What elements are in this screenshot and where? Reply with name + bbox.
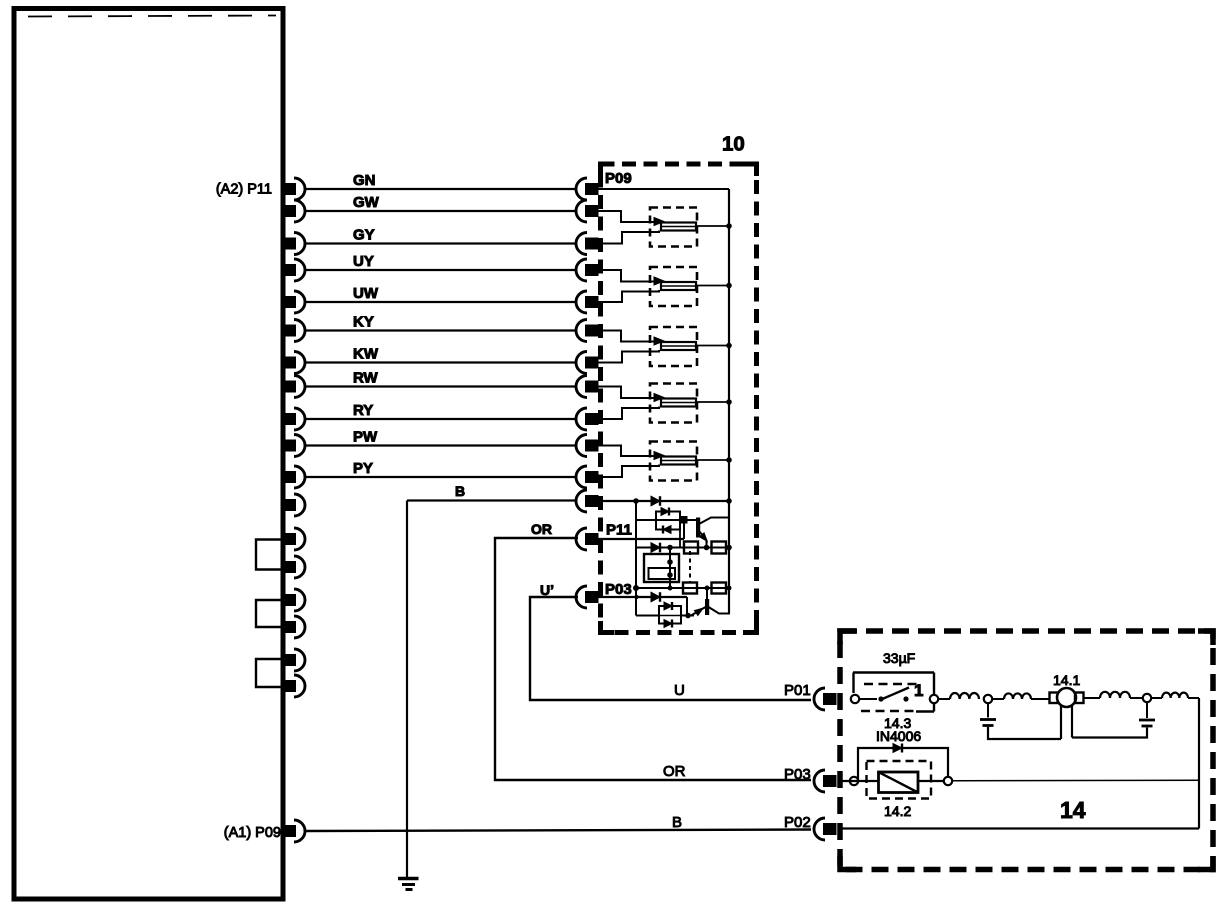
junction RC-RD node bbox=[705, 586, 710, 591]
injector 1 top lead bbox=[598, 211, 656, 222]
ECU spare pin y686 bbox=[284, 675, 305, 697]
S1 right lead down bbox=[679, 530, 681, 548]
svg-text:RY: RY bbox=[353, 402, 373, 419]
junction W547 left bbox=[667, 545, 673, 551]
box-10 pin GN bbox=[576, 178, 598, 200]
logic block R1 inner bbox=[649, 568, 676, 579]
junction P03-V1 crossing bbox=[634, 595, 638, 599]
svg-text:P01: P01 bbox=[784, 682, 811, 699]
injector 4 output wire bbox=[696, 401, 729, 403]
ECU spare pin y627 bbox=[284, 616, 305, 638]
resistor RB bbox=[712, 542, 727, 554]
ECU top border scan artifact bbox=[28, 16, 276, 17]
junction node V1 top bbox=[633, 498, 639, 504]
svg-text:B: B bbox=[455, 483, 465, 499]
junction injector 1 to bus bbox=[726, 223, 732, 229]
svg-text:Uʼ: Uʼ bbox=[540, 582, 554, 598]
label PY bbox=[353, 460, 373, 477]
motor 14.1 right terminal bbox=[1075, 693, 1084, 704]
ECU pin (A1) P09 bbox=[284, 820, 305, 842]
injector 4 valve arrow bbox=[654, 394, 664, 402]
wire B inside box 10 bbox=[598, 500, 729, 502]
ECU spare pin y660 bbox=[284, 649, 305, 671]
injector 2 valve arrow bbox=[654, 277, 664, 285]
wire KW bbox=[305, 361, 576, 363]
svg-text:1: 1 bbox=[914, 681, 923, 700]
inductor L3 bbox=[1100, 692, 1130, 698]
ECU spare pin y567 bbox=[284, 556, 305, 578]
box-10 pin GW bbox=[576, 200, 598, 222]
junction square P11 feed bbox=[681, 517, 688, 524]
label OR (lower) bbox=[663, 763, 686, 780]
wire PW bbox=[305, 444, 576, 446]
injector 2 output wire bbox=[696, 285, 729, 287]
wire W588 resistor row 2 bbox=[636, 587, 729, 589]
injector 5 coil body bbox=[661, 457, 696, 465]
svg-text:14.2: 14.2 bbox=[884, 803, 911, 819]
injector 5 top lead bbox=[598, 446, 656, 457]
junction W547 to bus bbox=[726, 545, 732, 551]
inductor L1 bbox=[950, 693, 979, 699]
label GW bbox=[353, 194, 380, 211]
label U* bbox=[540, 582, 554, 598]
wire UY bbox=[305, 269, 576, 271]
injector 5 valve arrow bbox=[654, 452, 664, 460]
vertical rail V2 bbox=[669, 548, 671, 589]
diode S1 bottom bbox=[663, 526, 671, 534]
injector 5 output wire bbox=[696, 459, 729, 461]
suppression box S2 bbox=[659, 606, 681, 624]
wire PY bbox=[305, 476, 576, 478]
switch 14.3 pin 1 label bbox=[914, 681, 923, 700]
wire P02 line bbox=[842, 827, 1199, 829]
label P11 bbox=[606, 522, 632, 539]
transistor T1 base bar bbox=[697, 518, 700, 537]
diode 14.2 body bbox=[879, 772, 919, 793]
wire 14.2 to right edge bbox=[952, 779, 1199, 782]
junction V2 a bbox=[667, 559, 673, 565]
component 10 dashed border bbox=[601, 164, 757, 633]
inductor L2 bbox=[1004, 693, 1031, 699]
svg-text:P03: P03 bbox=[605, 581, 632, 598]
diode D3 on P03 wire bbox=[651, 592, 660, 602]
diode D1 on B wire bbox=[651, 496, 660, 506]
injector 4 top lead bbox=[598, 387, 656, 399]
svg-text:KW: KW bbox=[353, 346, 379, 363]
wire P11 bbox=[598, 538, 684, 540]
diode 14.2 dashed box bbox=[867, 761, 932, 799]
junction injector 2 to bus bbox=[726, 283, 732, 289]
box 10 corner marks bbox=[601, 164, 757, 633]
label P09 bbox=[605, 170, 632, 187]
node after L3 bbox=[1143, 694, 1151, 702]
injector 2 coil body bbox=[661, 282, 696, 290]
logic block R1 outer bbox=[644, 554, 679, 582]
node after L1 bbox=[984, 695, 992, 703]
wire P03 inside box 10 bbox=[598, 596, 687, 598]
capacitor C2 bottom lead bbox=[1072, 728, 1147, 738]
svg-text:(A1) P09: (A1) P09 bbox=[224, 825, 281, 841]
box-10 pin GY bbox=[576, 233, 598, 255]
svg-text:(A2) P11: (A2) P11 bbox=[216, 182, 272, 198]
svg-text:UW: UW bbox=[353, 285, 379, 302]
svg-text:PW: PW bbox=[353, 429, 378, 446]
label 14 bbox=[1060, 797, 1086, 823]
inductor L4 bbox=[1162, 693, 1188, 698]
diode 14.2 bypass loop bbox=[858, 748, 948, 779]
svg-text:KY: KY bbox=[353, 314, 374, 331]
junction V2-W588 bbox=[668, 586, 673, 591]
ECU pin for wire GN bbox=[284, 178, 305, 200]
wire B (to box 10) bbox=[407, 499, 575, 501]
injector 3 coil body bbox=[661, 342, 696, 350]
injector 4 bottom lead bbox=[598, 407, 659, 420]
label B (upper) bbox=[455, 483, 465, 499]
label OR (upper) bbox=[531, 521, 552, 537]
ECU control unit A (main box) bbox=[14, 9, 283, 900]
svg-text:P03: P03 bbox=[784, 766, 811, 783]
injector 2 bottom lead bbox=[598, 290, 659, 302]
ground symbol bbox=[398, 879, 419, 890]
label GY bbox=[353, 227, 375, 244]
wire L4 to corner bbox=[1151, 697, 1199, 699]
ECU pin for wire GY bbox=[284, 233, 305, 255]
injector 1 output wire bbox=[696, 225, 729, 227]
ECU blank plug box 3 bbox=[256, 659, 281, 687]
transistor T1 collector bbox=[699, 518, 728, 525]
label UW bbox=[353, 285, 379, 302]
label KW bbox=[353, 346, 379, 363]
svg-text:GW: GW bbox=[353, 194, 380, 211]
diode S1 top bbox=[661, 508, 669, 516]
wire W520 to T1 base bbox=[636, 519, 697, 521]
svg-text:PY: PY bbox=[353, 460, 373, 477]
dashed capacitor lead bbox=[689, 551, 691, 582]
wire motor to L3 bbox=[1084, 697, 1101, 699]
wire U* (to box 10 P03) bbox=[530, 597, 811, 700]
label RY bbox=[353, 402, 373, 419]
box-10 pin RY bbox=[576, 408, 598, 430]
svg-text:33µF: 33µF bbox=[883, 650, 915, 666]
box-10 pin UW bbox=[576, 291, 598, 313]
injector 1 dashed box bbox=[650, 208, 697, 247]
junction injector 4 to bus bbox=[726, 399, 732, 405]
motor 14.1 body bbox=[1057, 688, 1076, 707]
switch 14.3 inner dashed bottom bbox=[861, 710, 918, 713]
svg-text:U: U bbox=[674, 682, 685, 699]
motor right brush lead bbox=[1071, 706, 1073, 738]
label 33uF bbox=[883, 650, 915, 666]
ECU pin for wire KY bbox=[284, 320, 305, 342]
junction W615 node bbox=[685, 613, 691, 619]
box 14 corner marks bbox=[840, 631, 1213, 870]
svg-text:P02: P02 bbox=[784, 814, 811, 831]
switch 14.3 entry node bbox=[851, 695, 859, 703]
label (A2) P11 bbox=[216, 182, 272, 198]
injector 1 valve arrow bbox=[654, 218, 664, 226]
ECU spare pin y505 bbox=[284, 494, 305, 516]
wire GW bbox=[305, 210, 576, 212]
ECU pin for wire RW bbox=[284, 376, 305, 398]
vertical rail V1 bbox=[635, 501, 637, 616]
svg-text:10: 10 bbox=[722, 133, 745, 156]
wire L3 to node bbox=[1130, 697, 1143, 699]
ECU pin for wire UY bbox=[284, 259, 305, 281]
label GN bbox=[353, 172, 376, 189]
transistor T2 emitter bbox=[691, 606, 706, 616]
ECU pin for wire UW bbox=[284, 291, 305, 313]
wire B bottom (A1 P09 to P02) bbox=[306, 830, 811, 832]
label U (lower) bbox=[674, 682, 685, 699]
ECU pin for wire PY bbox=[284, 466, 305, 488]
switch 14.3 contacts bbox=[860, 688, 910, 702]
switch 14.3 housing bbox=[853, 673, 934, 712]
svg-text:OR: OR bbox=[531, 521, 552, 537]
component 14 dashed border bbox=[840, 631, 1213, 870]
diode D2 on W547 bbox=[651, 543, 660, 553]
ECU pin for wire GW bbox=[284, 200, 305, 222]
box-10 pin B bbox=[576, 490, 598, 512]
junction W588 to bus bbox=[727, 586, 732, 591]
node 14.2 exit bbox=[944, 777, 952, 785]
capacitor C2 bbox=[1139, 720, 1155, 726]
label B (lower) bbox=[672, 814, 682, 831]
box-10 pin RW bbox=[576, 376, 598, 398]
label UY bbox=[353, 253, 374, 270]
svg-text:OR: OR bbox=[663, 763, 686, 780]
capacitor C2 lead bbox=[1146, 702, 1148, 718]
label P03 bbox=[605, 581, 632, 598]
wire P03 into 14.2 bbox=[842, 780, 879, 782]
junction V2 b bbox=[667, 572, 673, 578]
transistor T1 emitter bbox=[699, 531, 710, 548]
node P03 entry bbox=[850, 777, 858, 785]
motor left brush lead bbox=[1060, 706, 1062, 739]
injector 3 valve arrow bbox=[654, 337, 664, 345]
box-10 pin KY bbox=[576, 320, 598, 342]
label P02 bbox=[784, 814, 811, 831]
box-10 pin PW bbox=[576, 435, 598, 457]
capacitor C1 bottom lead bbox=[988, 727, 1061, 739]
injector 4 coil body bbox=[661, 399, 696, 407]
svg-text:IN4006: IN4006 bbox=[876, 728, 921, 744]
injector 2 top lead bbox=[598, 270, 656, 282]
box-10 pin PY bbox=[576, 466, 598, 488]
label RW bbox=[353, 370, 379, 387]
svg-text:14.1: 14.1 bbox=[1053, 672, 1080, 688]
svg-text:GY: GY bbox=[353, 227, 375, 244]
junction V1-W588 bbox=[633, 585, 639, 591]
transistor T2 base bar bbox=[706, 600, 709, 615]
svg-text:UY: UY bbox=[353, 253, 374, 270]
wire RY bbox=[305, 418, 576, 420]
label 14.3 diode IN4006 bbox=[876, 728, 921, 744]
injector 2 dashed box bbox=[650, 267, 697, 306]
label (A1) P09 bbox=[224, 825, 281, 841]
svg-text:RW: RW bbox=[353, 370, 379, 387]
junction injector 3 to bus bbox=[726, 343, 732, 349]
junction B wire to bus bbox=[726, 498, 732, 504]
wire P11 riser bbox=[683, 520, 685, 539]
svg-text:14: 14 bbox=[1060, 797, 1086, 823]
box-10 pin P03 bbox=[576, 586, 598, 608]
wire RW bbox=[305, 385, 576, 387]
transistor T2 collector bbox=[709, 607, 731, 614]
svg-text:GN: GN bbox=[353, 172, 376, 189]
label 10 bbox=[722, 133, 745, 156]
wire OR (to box 10 P11) bbox=[495, 538, 811, 780]
svg-text:P11: P11 bbox=[606, 522, 632, 539]
svg-text:P09: P09 bbox=[605, 170, 632, 187]
label 14.2 bbox=[884, 803, 911, 819]
supply bus inside box 10 bbox=[728, 189, 730, 614]
diode S2 top bbox=[664, 602, 672, 610]
injector 5 bottom lead bbox=[598, 465, 659, 478]
injector 3 dashed box bbox=[650, 327, 697, 366]
injector 1 coil body bbox=[661, 223, 696, 231]
wire GN bbox=[305, 188, 576, 190]
box-10 pin P11 bbox=[576, 528, 598, 550]
ECU pin for wire KW bbox=[284, 352, 305, 374]
label P01 bbox=[784, 682, 811, 699]
wire switch to coil bbox=[938, 698, 950, 700]
wire L2 to motor bbox=[1031, 698, 1050, 700]
label 14.3 bbox=[884, 715, 911, 731]
box-10 pin KW bbox=[576, 352, 598, 374]
ECU blank plug box 2 bbox=[256, 600, 281, 627]
ECU pin for wire PW bbox=[284, 435, 305, 457]
box-14 pin P03 bbox=[814, 770, 836, 792]
switch 14.3 inner dashed top bbox=[864, 683, 921, 686]
injector 3 top lead bbox=[598, 331, 656, 342]
wire right edge drop bbox=[1198, 698, 1200, 829]
box-14 pin P01 bbox=[814, 688, 836, 710]
junction injector 5 to bus bbox=[726, 457, 732, 463]
diode on bypass bbox=[893, 744, 902, 753]
svg-text:B: B bbox=[672, 814, 682, 831]
wire GY bbox=[305, 242, 576, 244]
capacitor C1 lead bbox=[987, 703, 989, 718]
label P03 (box 14) bbox=[784, 766, 811, 783]
injector 1 bottom lead bbox=[598, 231, 659, 244]
box-10 pin UY bbox=[576, 259, 598, 281]
wire W615 bbox=[636, 615, 694, 617]
junction T1 emitter node bbox=[704, 545, 710, 551]
ECU blank plug box 1 bbox=[256, 540, 281, 570]
resistor RD bbox=[712, 583, 727, 594]
motor 14.1 left terminal bbox=[1050, 693, 1059, 704]
wire P03 drop bbox=[686, 597, 688, 616]
diode S2 bottom bbox=[664, 620, 672, 628]
injector 3 bottom lead bbox=[598, 350, 659, 363]
label 14.1 bbox=[1053, 672, 1080, 688]
injector 3 output wire bbox=[696, 345, 729, 347]
wire UW bbox=[305, 301, 576, 303]
wire W547 resistor row bbox=[636, 547, 729, 549]
switch 14.3 exit node bbox=[930, 695, 938, 703]
box-14 pin P02 bbox=[814, 818, 836, 840]
resistor RA bbox=[684, 542, 698, 554]
suppression box S1 bbox=[656, 512, 680, 530]
injector 5 dashed box bbox=[650, 442, 697, 481]
resistor RC bbox=[683, 583, 697, 594]
wire node to L2 bbox=[992, 698, 1004, 700]
ECU spare pin y600 bbox=[284, 589, 305, 611]
label KY bbox=[353, 314, 374, 331]
ground wire vertical bbox=[406, 501, 408, 879]
label PW bbox=[353, 429, 378, 446]
wire 14.2 out bbox=[918, 780, 943, 782]
ECU spare pin y539 bbox=[284, 528, 305, 550]
ECU pin for wire RY bbox=[284, 408, 305, 430]
capacitor C1 bbox=[980, 720, 996, 726]
wire KY bbox=[305, 329, 576, 331]
wire V3 to T2 base bbox=[706, 588, 708, 600]
wire GN inside box 10 (top feed) bbox=[598, 188, 729, 190]
injector 4 dashed box bbox=[650, 384, 697, 423]
